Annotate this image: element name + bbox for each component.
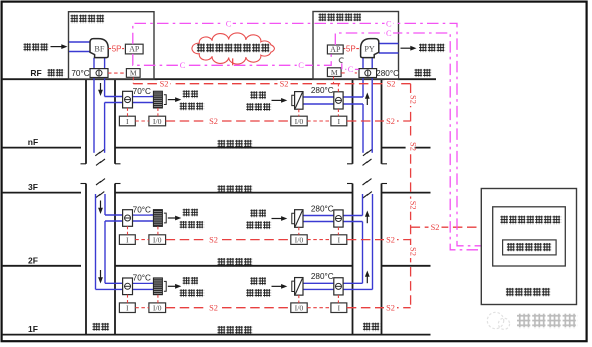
input module I left floor2 bbox=[119, 235, 135, 245]
svg-text:M: M bbox=[331, 68, 338, 77]
wire damper to I bbox=[127, 226, 129, 235]
C line supply fan control bbox=[133, 23, 503, 245]
wire nF exhaust damper to S2 bus bbox=[337, 84, 339, 92]
text bufengfa (supply valve) bbox=[180, 221, 205, 229]
nF exhaust branch top bbox=[303, 96, 363, 98]
svg-text:S2: S2 bbox=[386, 117, 395, 126]
exhaust outlet duct top bbox=[379, 43, 399, 45]
interlock cloud callout bbox=[192, 33, 275, 64]
cloud text: interlock stop supply fan line bbox=[197, 44, 271, 53]
svg-text:C: C bbox=[386, 29, 392, 38]
wire damper to I bbox=[337, 295, 339, 303]
right shaft wall upper bbox=[352, 79, 354, 164]
down flow arrow 2F bbox=[98, 270, 103, 284]
S2 bus row3 right bbox=[347, 307, 411, 309]
text guanjing (shaft) left bbox=[93, 323, 110, 332]
svg-text:I: I bbox=[337, 236, 340, 245]
exhaust riser right wall bbox=[371, 56, 373, 153]
shaft cut tick bbox=[382, 183, 388, 185]
input module I left floor1 bbox=[119, 116, 135, 126]
text changbi (normally closed) bbox=[250, 91, 267, 99]
I/O module right floor1 bbox=[291, 116, 307, 126]
S2 link to fire controller bbox=[411, 226, 493, 228]
70C damper supply floor3 bbox=[123, 278, 133, 295]
text supply fan room bbox=[71, 15, 105, 24]
svg-text:70°C: 70°C bbox=[71, 69, 89, 78]
svg-text:280°C: 280°C bbox=[311, 272, 334, 281]
supply grille floor2 bbox=[153, 210, 166, 227]
I/O module right floor2 bbox=[291, 235, 307, 245]
cloud pointer bbox=[232, 58, 234, 65]
text manual control panel bbox=[507, 243, 552, 252]
lower supply riser right wall mid bbox=[104, 221, 106, 283]
2F floor line mid bbox=[115, 265, 353, 267]
S2 bus row2 right bbox=[347, 239, 411, 241]
shaft cut tick bbox=[382, 163, 388, 165]
svg-text:BF: BF bbox=[94, 44, 104, 53]
exhaust valve floor1 bbox=[292, 92, 303, 110]
lower supply riser right wall upper bbox=[104, 194, 106, 215]
svg-text:70°C: 70°C bbox=[133, 274, 151, 283]
3F exhaust branch top bbox=[303, 215, 363, 217]
wire I/O to I bbox=[307, 307, 331, 309]
arrow to supply valve label bbox=[168, 216, 182, 221]
left shaft wall lower bbox=[85, 184, 87, 335]
lower exhaust riser left wall bbox=[362, 222, 364, 284]
svg-text:RF: RF bbox=[30, 68, 41, 78]
70C damper supply floor1 bbox=[123, 91, 133, 108]
right shaft wall upper bbox=[381, 79, 383, 164]
wire grille valve to I/O bbox=[157, 226, 159, 234]
text smoke zone (fangyanfenqu) bbox=[218, 258, 253, 267]
svg-text:70°C: 70°C bbox=[133, 87, 151, 96]
flexible connector curl bbox=[339, 58, 343, 63]
pipe break bbox=[95, 149, 104, 155]
wire I/O to I bbox=[307, 239, 331, 241]
supply riser left wall bbox=[93, 58, 95, 153]
left shaft wall upper bbox=[114, 79, 116, 164]
supply grille floor3 bbox=[153, 278, 166, 295]
C link to 280C damper bbox=[342, 63, 359, 69]
controller AP right bbox=[327, 45, 343, 54]
arrow to supply valve label bbox=[168, 284, 182, 289]
I/O module left floor3 bbox=[149, 303, 166, 313]
lower supply riser left wall bbox=[95, 194, 97, 289]
text paiyanfa (exhaust valve) bbox=[246, 103, 271, 111]
shaft cut tick bbox=[347, 163, 353, 165]
svg-text:S2: S2 bbox=[209, 304, 218, 313]
S2 bus row1 left bbox=[166, 120, 291, 122]
3F supply branch bottom bbox=[105, 220, 153, 222]
arrow to exhaust valve bbox=[272, 98, 288, 103]
input module I right floor2 bbox=[331, 235, 347, 245]
lower exhaust riser right wall bbox=[372, 194, 374, 289]
fire linkage controller box bbox=[493, 207, 566, 266]
lower exhaust riser left wall upper bbox=[362, 194, 364, 216]
wire damper to I bbox=[337, 227, 339, 235]
nF floor line right bbox=[382, 147, 431, 149]
right shaft wall lower bbox=[352, 184, 354, 335]
svg-text:S2: S2 bbox=[280, 80, 289, 89]
svg-text:5P: 5P bbox=[112, 45, 122, 54]
svg-text:I/0: I/0 bbox=[153, 236, 162, 245]
arrow to exhaust valve bbox=[272, 284, 288, 289]
svg-text:280°C: 280°C bbox=[311, 204, 334, 213]
supply inlet duct bottom bbox=[69, 51, 90, 53]
nF exhaust branch bottom bbox=[303, 103, 363, 105]
svg-text:AP: AP bbox=[330, 45, 341, 54]
S2 bus RF level bbox=[133, 83, 410, 85]
svg-text:1F: 1F bbox=[28, 324, 38, 334]
up flow arrow 2F bbox=[365, 271, 370, 284]
pipe break bbox=[363, 149, 372, 155]
wire damper to M left bbox=[108, 72, 126, 74]
svg-text:S2: S2 bbox=[387, 80, 396, 89]
text paichukou (air outlet) bbox=[419, 44, 445, 53]
text smoke zone (fangyanfenqu) bbox=[218, 140, 253, 149]
text bufengfa (supply valve) bbox=[180, 103, 205, 111]
svg-text:S2: S2 bbox=[209, 236, 218, 245]
280C damper exhaust floor2 bbox=[334, 210, 343, 227]
pipe break bbox=[363, 179, 372, 185]
RF roof line bbox=[2, 78, 436, 80]
svg-text:3F: 3F bbox=[28, 182, 38, 192]
arrow to supply valve label bbox=[168, 97, 182, 102]
text shiwai (outdoor) right bbox=[415, 69, 432, 78]
nF supply branch bottom bbox=[105, 102, 154, 104]
actuator M left bbox=[126, 69, 140, 78]
input module I right floor3 bbox=[331, 303, 347, 313]
2F floor line right bbox=[382, 265, 431, 267]
left shaft wall upper bbox=[85, 79, 87, 164]
shaft cut tick bbox=[115, 163, 121, 165]
pipe break bbox=[363, 192, 372, 198]
svg-text:S2: S2 bbox=[386, 304, 395, 313]
down flow arrow RF-nF bbox=[98, 83, 103, 96]
svg-text:M: M bbox=[130, 69, 137, 78]
text changbi (normally closed) bbox=[250, 277, 267, 285]
wire I to I/O bbox=[135, 239, 149, 241]
S2 bus row3 left bbox=[166, 307, 291, 309]
svg-text:I: I bbox=[126, 304, 129, 313]
280C damper RF exhaust bbox=[359, 69, 377, 78]
manual control panel box bbox=[503, 240, 556, 255]
pipe break bbox=[95, 192, 104, 198]
svg-text:S2: S2 bbox=[431, 223, 440, 232]
exhaust outlet duct bottom bbox=[379, 52, 399, 54]
watermark text jidianrenmai bbox=[517, 314, 578, 329]
input module I right floor1 bbox=[331, 116, 347, 126]
3F floor line right bbox=[382, 192, 431, 194]
svg-text:I: I bbox=[337, 304, 340, 313]
svg-text:S2: S2 bbox=[160, 80, 169, 89]
wire BF-5P-AP bbox=[108, 48, 125, 50]
wire damper to I bbox=[127, 295, 129, 303]
70C damper supply floor2 bbox=[123, 210, 133, 227]
text smoke zone (fangyanfenqu) bbox=[218, 326, 253, 335]
wire AP-5P-PY bbox=[343, 48, 360, 50]
wire I/O to I bbox=[307, 120, 331, 122]
supply riser right wall lower bbox=[104, 103, 106, 153]
S2 bus row2 left bbox=[166, 239, 291, 241]
svg-text:S2: S2 bbox=[408, 142, 417, 151]
text jinfengkou (air inlet) bbox=[24, 43, 49, 51]
svg-text:S2: S2 bbox=[408, 95, 417, 104]
C interlock line AP to AP bbox=[133, 54, 331, 65]
right shaft wall lower bbox=[381, 184, 383, 335]
shaft cut tick bbox=[347, 183, 353, 185]
I/O module left floor2 bbox=[149, 235, 166, 245]
text changbi (normally closed) bbox=[183, 277, 199, 285]
svg-text:280°C: 280°C bbox=[376, 69, 399, 78]
svg-text:280°C: 280°C bbox=[311, 86, 334, 95]
text smoke zone (fangyanfenqu) bbox=[218, 185, 253, 194]
nF floor line left bbox=[2, 147, 81, 149]
svg-text:I/0: I/0 bbox=[295, 236, 304, 245]
2F exhaust branch top bbox=[303, 282, 363, 284]
2F floor line left bbox=[2, 265, 81, 267]
shaft cut tick bbox=[81, 163, 87, 165]
supply fan BF bbox=[90, 39, 108, 58]
text guanjing (shaft) right bbox=[363, 323, 380, 332]
wire I to I/O bbox=[135, 307, 149, 309]
nF floor line mid bbox=[115, 147, 353, 149]
up flow arrow nF bbox=[365, 93, 370, 106]
text changbi (normally closed) bbox=[183, 209, 199, 217]
wire I to I/O bbox=[135, 120, 149, 122]
pipe break bbox=[363, 159, 372, 165]
S2 bus row1 right bbox=[347, 120, 411, 122]
exhaust valve floor3 bbox=[292, 278, 303, 296]
up flow arrow 3F bbox=[365, 211, 370, 224]
svg-text:C: C bbox=[298, 61, 304, 70]
2F exhaust branch bottom bbox=[303, 288, 373, 290]
exhaust riser left wall lower bbox=[362, 104, 364, 153]
svg-text:I/0: I/0 bbox=[295, 117, 304, 126]
air outlet arrow bbox=[401, 46, 417, 51]
svg-text:C: C bbox=[348, 65, 354, 74]
svg-text:I/0: I/0 bbox=[153, 117, 162, 126]
wire M right to 280C damper bbox=[341, 72, 359, 74]
text paiyanfa (exhaust valve) bbox=[246, 289, 271, 297]
280C damper exhaust floor3 bbox=[334, 278, 343, 295]
nF supply branch top bbox=[105, 96, 154, 98]
I/O module left floor1 bbox=[149, 116, 166, 126]
svg-text:S2: S2 bbox=[386, 236, 395, 245]
svg-text:S2: S2 bbox=[209, 117, 218, 126]
svg-text:C: C bbox=[226, 19, 232, 28]
3F exhaust branch bottom bbox=[303, 221, 363, 223]
shaft cut tick bbox=[115, 183, 121, 185]
text changbi (normally closed) bbox=[250, 209, 267, 217]
text fire linkage controller bbox=[500, 216, 561, 225]
shaft cut tick bbox=[81, 183, 87, 185]
arrow to exhaust valve bbox=[272, 216, 288, 221]
1F floor line bbox=[2, 334, 431, 336]
2F supply branch top bbox=[105, 282, 153, 284]
svg-text:C: C bbox=[386, 19, 392, 28]
pipe break bbox=[96, 159, 105, 165]
text bufengfa (supply valve) bbox=[180, 289, 205, 297]
exhaust riser left wall upper bbox=[362, 56, 364, 97]
svg-text:70°C: 70°C bbox=[133, 205, 151, 214]
wire valve to I/O bbox=[298, 295, 300, 303]
280C damper exhaust floor1 bbox=[334, 92, 343, 109]
input module I left floor3 bbox=[119, 303, 135, 313]
svg-text:I/0: I/0 bbox=[153, 304, 162, 313]
svg-text:I: I bbox=[126, 236, 129, 245]
text shiwai (outdoor) left bbox=[48, 69, 65, 77]
I/O module right floor3 bbox=[291, 303, 307, 313]
pipe break bbox=[96, 179, 105, 185]
down flow arrow 3F bbox=[98, 201, 103, 215]
svg-text:5P: 5P bbox=[346, 44, 356, 53]
wire valve to I/O bbox=[298, 109, 300, 116]
supply grille floor1 bbox=[153, 91, 166, 108]
exhaust valve floor2 bbox=[292, 210, 303, 228]
svg-text:PY: PY bbox=[364, 44, 375, 53]
70C damper RF supply bbox=[90, 69, 108, 78]
svg-text:S2: S2 bbox=[408, 201, 417, 210]
wire damper to I bbox=[127, 108, 129, 116]
text fire control room bbox=[506, 288, 551, 297]
air inlet arrow bbox=[51, 44, 68, 49]
controller AP left bbox=[125, 44, 143, 54]
svg-text:I/0: I/0 bbox=[295, 304, 304, 313]
text exhaust fan room bbox=[319, 13, 363, 22]
wire damper to I bbox=[337, 109, 339, 116]
supply riser right wall upper bbox=[104, 58, 106, 97]
wire grille valve to I/O bbox=[157, 108, 159, 116]
exhaust fan room box bbox=[313, 12, 399, 80]
3F floor line left bbox=[2, 192, 81, 194]
wire grille valve to I/O bbox=[157, 295, 159, 303]
svg-text:C: C bbox=[180, 61, 186, 70]
text paiyanfa (exhaust valve) bbox=[246, 221, 271, 229]
2F supply branch bottom bbox=[96, 288, 154, 290]
3F supply branch top bbox=[105, 214, 153, 216]
supply inlet duct top bbox=[69, 41, 90, 43]
svg-text:AP: AP bbox=[129, 45, 140, 54]
fire control room box bbox=[481, 189, 576, 305]
svg-text:nF: nF bbox=[28, 137, 38, 147]
wire M left to S2 bus bbox=[132, 77, 134, 83]
actuator M right bbox=[327, 68, 341, 77]
supply fan room box bbox=[69, 12, 155, 80]
C line exhaust fan control bbox=[335, 33, 502, 250]
wire M right to S2 bus bbox=[333, 77, 335, 84]
svg-text:I: I bbox=[337, 117, 340, 126]
3F floor line mid bbox=[115, 192, 353, 194]
svg-text:I: I bbox=[126, 117, 129, 126]
exhaust fan PY bbox=[361, 39, 379, 58]
watermark logo circles bbox=[487, 312, 509, 329]
text changbi (normally closed) bbox=[183, 90, 199, 98]
svg-text:S2: S2 bbox=[408, 247, 417, 256]
wire valve to I/O bbox=[298, 227, 300, 235]
S2 riser to control room bbox=[410, 84, 412, 308]
svg-text:2F: 2F bbox=[28, 255, 38, 265]
left shaft wall lower bbox=[114, 184, 116, 335]
